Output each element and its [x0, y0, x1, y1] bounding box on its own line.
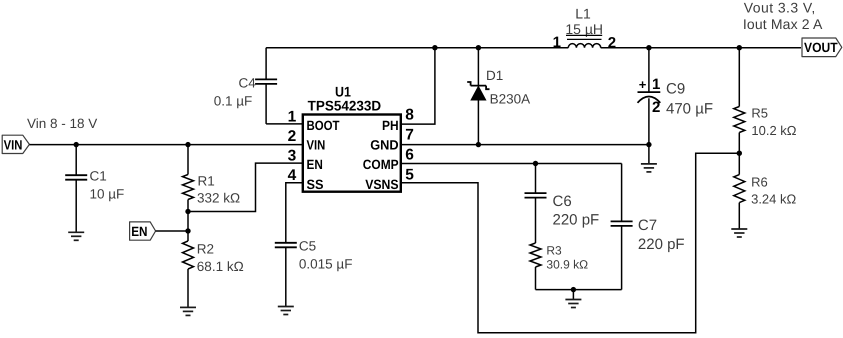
wire COMP bottom rail	[536, 289, 622, 291]
resistor R3	[530, 243, 588, 290]
svg-text:R3: R3	[546, 244, 562, 258]
junction PH riser	[432, 45, 437, 50]
ground C1	[68, 232, 84, 240]
inductor L1 15 uH	[553, 6, 616, 52]
svg-text:D1: D1	[486, 68, 503, 83]
svg-text:BOOT: BOOT	[307, 118, 341, 133]
junction R5/R6 feedback	[737, 151, 742, 156]
capacitor C9 (polarized)	[638, 48, 714, 145]
svg-text:15 µH: 15 µH	[565, 21, 603, 37]
svg-text:TPS54233D: TPS54233D	[308, 98, 382, 114]
svg-text:EN: EN	[307, 157, 323, 172]
wire COMP pin 6	[401, 163, 622, 165]
resistor R1	[183, 145, 241, 241]
capacitor C7	[611, 164, 685, 290]
ground C9	[641, 145, 657, 172]
net tag VIN	[2, 135, 29, 153]
svg-text:220 pF: 220 pF	[638, 236, 685, 253]
svg-text:COMP: COMP	[363, 157, 399, 172]
wire VSNS pin 5 feedback	[401, 153, 740, 333]
svg-text:1: 1	[288, 109, 297, 126]
svg-text:220 pF: 220 pF	[553, 212, 600, 229]
junction top rail / D1	[476, 45, 481, 50]
svg-text:2: 2	[288, 128, 297, 145]
svg-text:C4: C4	[239, 76, 257, 91]
junction bottom rail / ground	[571, 287, 576, 292]
svg-text:2: 2	[608, 34, 616, 51]
svg-text:C7: C7	[638, 217, 657, 234]
svg-text:Vin 8 - 18 V: Vin 8 - 18 V	[27, 116, 97, 131]
svg-text:4: 4	[288, 167, 297, 184]
svg-text:3: 3	[288, 148, 297, 165]
wire EN tag to R1/R2	[156, 230, 188, 232]
resistor R6	[734, 153, 797, 229]
svg-text:VIN: VIN	[4, 137, 23, 152]
ground C5	[278, 307, 294, 315]
svg-text:GND: GND	[370, 138, 399, 153]
svg-text:1: 1	[553, 34, 561, 51]
svg-text:30.9 kΩ: 30.9 kΩ	[546, 258, 588, 272]
svg-text:PH: PH	[382, 118, 399, 133]
svg-text:B230A: B230A	[490, 92, 531, 107]
svg-text:SS: SS	[307, 177, 324, 192]
svg-text:C5: C5	[299, 239, 316, 254]
resistor R2	[183, 241, 244, 307]
svg-text:2: 2	[652, 99, 660, 116]
wire top rail (VOUT node)	[601, 47, 801, 49]
junction R1/EN-pin wire	[185, 209, 190, 214]
svg-text:7: 7	[405, 127, 414, 144]
svg-text:0.015 µF: 0.015 µF	[299, 257, 353, 272]
junction GND rail / C9	[646, 142, 651, 147]
junction top rail / C9	[646, 45, 651, 50]
junction top rail / R5	[737, 45, 742, 50]
wire R1 junction to EN pin 3	[188, 163, 303, 211]
net tag VOUT	[802, 38, 842, 57]
svg-text:C9: C9	[666, 81, 685, 98]
junction D1 / GND rail	[476, 142, 481, 147]
wire PH pin 8 riser	[401, 48, 435, 124]
svg-text:C6: C6	[553, 193, 572, 210]
svg-text:3.24 kΩ: 3.24 kΩ	[751, 192, 796, 207]
svg-text:1: 1	[652, 76, 660, 93]
svg-text:EN: EN	[131, 224, 147, 239]
ground R2	[180, 307, 196, 315]
svg-text:68.1 kΩ: 68.1 kΩ	[197, 259, 244, 274]
ground R6	[731, 229, 747, 237]
svg-text:R5: R5	[751, 106, 768, 121]
wire BOOT pin 1	[266, 123, 303, 125]
svg-text:+: +	[639, 77, 647, 92]
diode D1 B230A	[467, 48, 530, 145]
svg-text:R1: R1	[198, 174, 215, 189]
svg-text:332 kΩ: 332 kΩ	[197, 191, 240, 206]
wire GND pin 7 rail	[401, 144, 649, 146]
ground COMP network	[565, 290, 581, 308]
svg-text:L1: L1	[575, 6, 591, 22]
junction VIN/C1	[74, 142, 79, 147]
svg-text:10.2 kΩ: 10.2 kΩ	[751, 123, 796, 138]
net tag EN	[130, 222, 156, 240]
svg-text:VIN: VIN	[307, 138, 326, 153]
svg-text:Vout 3.3 V,: Vout 3.3 V,	[744, 0, 816, 16]
junction EN/R2	[185, 228, 190, 233]
svg-text:R2: R2	[197, 242, 214, 257]
svg-text:10 µF: 10 µF	[90, 187, 125, 202]
resistor R5	[734, 48, 797, 154]
svg-text:VOUT: VOUT	[804, 40, 838, 55]
svg-text:6: 6	[405, 147, 414, 164]
svg-text:0.1 µF: 0.1 µF	[214, 94, 253, 109]
capacitor C4	[214, 48, 277, 124]
wire top rail (PH node)	[266, 47, 568, 49]
junction VIN/R1	[185, 142, 190, 147]
svg-text:5: 5	[405, 167, 414, 184]
op-amp U1 TPS54233D body	[303, 83, 401, 191]
capacitor C6	[525, 164, 600, 244]
svg-text:R6: R6	[751, 175, 768, 190]
svg-text:VSNS: VSNS	[365, 177, 398, 192]
capacitor C5	[275, 183, 353, 307]
wire VIN rail	[29, 144, 302, 146]
junction COMP/C6	[533, 161, 538, 166]
capacitor C1	[65, 145, 124, 233]
svg-text:C1: C1	[90, 169, 107, 184]
svg-text:8: 8	[405, 107, 414, 124]
svg-text:Iout Max 2 A: Iout Max 2 A	[743, 16, 823, 32]
svg-text:470 µF: 470 µF	[666, 101, 713, 118]
